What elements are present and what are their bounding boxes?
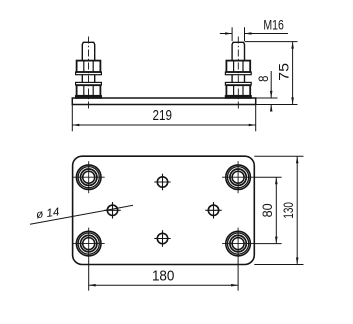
hole top-left crosshair [73,161,105,193]
svg-text:130: 130 [281,202,296,219]
dimension M16 extension lines [232,27,244,41]
dimension 80 extension lines [254,177,281,243]
hole top-left circles [76,165,101,190]
plate bottom extension line right [256,104,298,106]
dimension 130 line and arrows [296,156,299,264]
dimension 80 line and arrows [275,177,278,243]
svg-text:180: 180 [152,268,175,285]
small hole bottom [154,230,170,247]
stud left nut lower [77,85,101,96]
small hole left [104,202,120,219]
plate plan view [73,156,255,264]
diameter 14 label [35,206,60,221]
stud left washer upper [76,72,102,75]
dimension 130 label [281,202,296,219]
stud right washer bottom [225,96,251,98]
diameter 14 leader line [30,205,133,224]
dimension 8 line and arrows [270,71,273,112]
stud left centerline [88,37,90,110]
hole top-right crosshair [222,161,254,193]
stud right centerline [237,37,239,110]
hole bottom-right circles [226,231,251,256]
stud right rod [232,42,244,82]
small hole right [205,202,221,219]
dimension 8 label [255,75,271,81]
plate top extension line right [256,97,278,99]
dimension 180 line and arrows [89,284,238,287]
small hole top [154,174,170,191]
stud left rod [82,42,94,82]
hole bottom-left crosshair [73,228,105,260]
stud right nut upper [226,61,250,72]
stud left nut upper [77,61,101,72]
stud left washer middle [76,82,102,85]
hole bottom-right crosshair [222,228,254,260]
svg-text:75: 75 [276,63,291,81]
dimension 180 extension lines [89,260,238,291]
stud right washer upper [225,72,251,75]
svg-text:8: 8 [255,75,271,81]
dimension 219 extension lines [72,105,255,132]
dimension 80 label [259,203,275,217]
stud right washer middle [225,82,251,85]
hole bottom-left circles [76,231,101,256]
stud top extension line [245,41,298,43]
svg-text:M16: M16 [263,16,284,32]
dimension 219 line and arrows [72,124,255,127]
dimension M16 label [263,16,284,32]
dimension M16 line and arrows [220,32,288,35]
stud right nut lower [226,85,250,96]
dimension 219 label [153,107,173,124]
dimension 180 label [152,268,175,285]
svg-text:80: 80 [259,203,275,217]
dimension 75 label [276,63,291,81]
dimension 75 line and arrows [291,42,294,105]
svg-text:219: 219 [153,107,173,124]
dimension 130 extension lines [254,156,303,264]
stud left washer bottom [76,96,102,98]
plate side view [72,98,255,105]
hole top-right circles [226,165,251,190]
